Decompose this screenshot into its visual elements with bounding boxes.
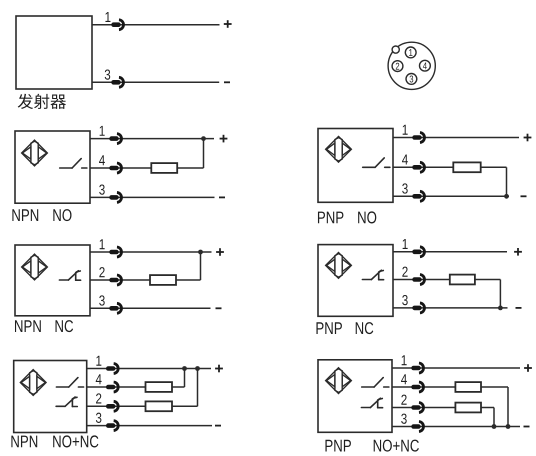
transmitter label 发射器: [18, 94, 66, 109]
pin number 4 (NPN NO): [99, 155, 105, 165]
wire load resistor to + junction (NPN NC): [200, 252, 202, 280]
- terminal (PNP NO): [521, 195, 527, 197]
- terminal (PNP NO+NC): [524, 426, 530, 428]
label NPN NO+NC: [11, 435, 98, 447]
pin number 1 (PNP NO+NC): [402, 355, 407, 365]
pin number 1 (NPN NO): [100, 126, 105, 136]
wire NC load resistor to - junction (PNP NO+NC): [493, 408, 495, 427]
wire from NC load resistor to - rail (PNP NO+NC): [481, 407, 494, 409]
quick-disconnect connector on wire 2 (PNP NC): [412, 275, 424, 285]
quick-disconnect connector on wire 1 (NPN NO): [109, 134, 121, 144]
wire 3 (PNP NC): [393, 307, 508, 309]
quick-disconnect connector on wire 1 (PNP NO): [412, 133, 424, 143]
sensor box NPN NC: [15, 245, 90, 316]
wire 3 from transmitter to - terminal: [92, 81, 219, 83]
pin number 4 (PNP NO+NC): [401, 374, 407, 384]
quick-disconnect connector on wire 4 (NPN NO+NC): [106, 382, 118, 392]
sensor box PNP NO: [318, 129, 393, 203]
+ terminal (NPN NO): [220, 135, 228, 143]
wire 2 (PNP NO+NC): [392, 407, 455, 409]
- terminal (NPN NC): [216, 307, 222, 309]
wire load resistor to - junction (PNP NC): [499, 280, 501, 308]
NO switch contact (NPN NO+NC): [56, 378, 83, 387]
wire 2 (PNP NC): [393, 279, 450, 281]
+ terminal (PNP NO+NC): [524, 364, 532, 372]
pin number 2 (NPN NC): [99, 267, 104, 277]
label PNP NC: [316, 322, 373, 334]
wire from NC load resistor to + rail (NPN NO+NC): [172, 405, 198, 407]
load resistor (NPN NO, wire 4): [151, 163, 177, 173]
quick-disconnect connector on wire 3 (PNP NO): [412, 191, 424, 201]
quick-disconnect connector on wire 3 (transmitter): [111, 77, 123, 87]
+ terminal (transmitter): [224, 20, 232, 28]
junction node on + rail (NPN NO): [201, 136, 206, 141]
sensor box NPN NO+NC: [14, 361, 87, 433]
wire 3 (NPN NO): [90, 196, 215, 198]
wire from load resistor to - rail (PNP NC): [475, 279, 501, 281]
quick-disconnect connector on wire 3 (NPN NC): [109, 303, 121, 313]
pin number 3 (PNP NO): [402, 183, 407, 193]
photoelectric sensor symbol (PNP NO): [326, 136, 352, 162]
pin number 1 (PNP NC): [403, 239, 408, 249]
wire NC load resistor to + junction (NPN NO+NC): [197, 369, 199, 407]
load resistor (PNP NO+NC, wire 4): [455, 382, 481, 392]
pin number 1 (PNP NO): [403, 125, 408, 135]
pin number 3 (NPN NO+NC): [96, 413, 101, 423]
junction node on + rail (NPN NC): [198, 250, 203, 255]
wire NO load resistor to + junction (NPN NO+NC): [184, 369, 186, 388]
quick-disconnect connector on wire 3 (NPN NO): [109, 192, 121, 202]
wire 1 from transmitter to + terminal: [92, 24, 220, 26]
NC switch contact (NPN NO+NC): [56, 397, 77, 407]
wire 1 (PNP NO+NC): [392, 367, 520, 369]
wire from NO load resistor to - rail (PNP NO+NC): [481, 386, 508, 388]
M12 connector face (outer circle): [388, 42, 435, 89]
quick-disconnect connector on wire 4 (NPN NO): [109, 163, 121, 173]
quick-disconnect connector on wire 4 (PNP NO): [412, 162, 424, 172]
quick-disconnect connector on wire 2 (NPN NC): [109, 275, 121, 285]
sensor box PNP NO+NC: [318, 360, 392, 433]
NO switch contact (PNP NO+NC): [362, 378, 389, 387]
photoelectric sensor symbol (PNP NC): [326, 253, 352, 279]
wire from NO load resistor to + rail (NPN NO+NC): [172, 386, 185, 388]
wire 1 (NPN NC): [90, 251, 212, 253]
load resistor (NPN NC, wire 2): [150, 275, 176, 285]
quick-disconnect connector on wire 1 (PNP NC): [412, 247, 424, 257]
NO switch contact (NPN NO): [60, 159, 87, 168]
junction node NO on - rail (PNP NO+NC): [506, 424, 511, 429]
photoelectric sensor symbol (NPN NO): [22, 140, 48, 166]
M12 pin 4: [420, 60, 431, 71]
quick-disconnect connector on wire 1 (NPN NC): [109, 247, 121, 257]
wire 4 (NPN NO+NC): [87, 386, 146, 388]
wire 3 (PNP NO): [393, 195, 509, 197]
+ terminal (PNP NO): [524, 134, 532, 142]
pin number 2 (NPN NO+NC): [96, 393, 101, 403]
photoelectric sensor symbol (NPN NC): [22, 254, 48, 280]
wire NO load resistor to - junction (PNP NO+NC): [507, 387, 509, 427]
photoelectric sensor symbol (NPN NO+NC): [20, 370, 46, 396]
NC switch contact (NPN NC): [59, 271, 80, 281]
label PNP NO: [318, 211, 376, 223]
pin number 1 (transmitter): [105, 12, 110, 22]
wire from load resistor to + rail (NPN NO): [177, 167, 203, 169]
M12 pin 2: [392, 61, 403, 72]
label NPN NC: [15, 320, 73, 332]
NC switch contact (PNP NO+NC): [361, 398, 382, 408]
load resistor (PNP NO, wire 4): [453, 162, 480, 172]
wire 3 (PNP NO+NC): [392, 426, 520, 428]
load resistor (PNP NC, wire 2): [450, 275, 475, 285]
wire 3 (NPN NO+NC): [87, 425, 212, 427]
quick-disconnect connector on wire 1 (transmitter): [111, 20, 123, 30]
load resistor (PNP NO+NC, wire 2): [455, 403, 481, 413]
transmitter box (emitter): [16, 16, 92, 89]
quick-disconnect connector on wire 3 (NPN NO+NC): [106, 421, 118, 431]
sensor box PNP NC: [318, 245, 393, 317]
pin number 2 (PNP NO+NC): [401, 395, 406, 405]
wire 4 (NPN NO): [90, 167, 151, 169]
wire 2 (NPN NC): [90, 279, 150, 281]
pin number 3 (transmitter): [105, 69, 110, 79]
wire 3 (NPN NC): [90, 307, 211, 309]
wire 4 (PNP NO+NC): [392, 386, 455, 388]
wire 2 (NPN NO+NC): [87, 405, 146, 407]
junction node on - rail (PNP NO): [504, 194, 509, 199]
pin number 3 (NPN NC): [99, 295, 104, 305]
wire from load resistor to + rail (NPN NC): [176, 279, 201, 281]
junction node NO on + rail (NPN NO+NC): [182, 366, 187, 371]
NC switch contact (PNP NC): [362, 270, 383, 280]
load resistor (NPN NO+NC, wire 4): [146, 382, 173, 392]
quick-disconnect connector on wire 2 (NPN NO+NC): [106, 401, 118, 411]
wire 4 (PNP NO): [393, 166, 453, 168]
label NPN NO: [12, 209, 71, 221]
wire load resistor to + junction (NPN NO): [203, 139, 205, 168]
label PNP NO+NC: [325, 440, 418, 452]
wire 1 (NPN NO+NC): [87, 368, 211, 370]
quick-disconnect connector on wire 3 (PNP NO+NC): [411, 422, 423, 432]
- terminal (transmitter): [224, 81, 230, 83]
+ terminal (PNP NC): [514, 248, 522, 256]
pin number 1 (NPN NO+NC): [96, 356, 101, 366]
wire from load resistor to - rail (PNP NO): [481, 166, 507, 168]
pin number 4 (NPN NO+NC): [96, 374, 102, 384]
junction node on - rail (PNP NC): [498, 306, 503, 311]
M12 pin 1: [405, 47, 416, 58]
wire 1 (PNP NC): [393, 251, 507, 253]
junction node NC on - rail (PNP NO+NC): [492, 424, 497, 429]
- terminal (PNP NC): [516, 307, 522, 309]
+ terminal (NPN NO+NC): [215, 365, 223, 373]
wire load resistor to - junction (PNP NO): [506, 167, 508, 196]
- terminal (NPN NO): [219, 196, 225, 198]
quick-disconnect connector on wire 2 (PNP NO+NC): [411, 403, 423, 413]
pin number 3 (PNP NC): [402, 295, 407, 305]
pin number 4 (PNP NO): [402, 155, 408, 165]
wire 1 (NPN NO): [90, 138, 214, 140]
load resistor (NPN NO+NC, wire 2): [146, 401, 173, 411]
pin number 2 (PNP NC): [402, 267, 407, 277]
quick-disconnect connector on wire 4 (PNP NO+NC): [411, 382, 423, 392]
M12 keying notch: [392, 46, 399, 53]
quick-disconnect connector on wire 3 (PNP NC): [412, 303, 424, 313]
pin number 3 (NPN NO): [99, 184, 104, 194]
junction node NC on + rail (NPN NO+NC): [195, 366, 200, 371]
photoelectric sensor symbol (PNP NO+NC): [326, 368, 352, 394]
pin number 3 (PNP NO+NC): [401, 414, 406, 424]
pin number 1 (NPN NC): [100, 239, 105, 249]
M12 pin 3: [406, 74, 417, 85]
NO switch contact (PNP NO): [363, 158, 390, 167]
sensor box NPN NO: [15, 131, 90, 203]
wire 1 (PNP NO): [393, 137, 519, 139]
- terminal (NPN NO+NC): [215, 425, 221, 427]
quick-disconnect connector on wire 1 (PNP NO+NC): [411, 363, 423, 373]
+ terminal (NPN NC): [216, 248, 224, 256]
quick-disconnect connector on wire 1 (NPN NO+NC): [106, 364, 118, 374]
